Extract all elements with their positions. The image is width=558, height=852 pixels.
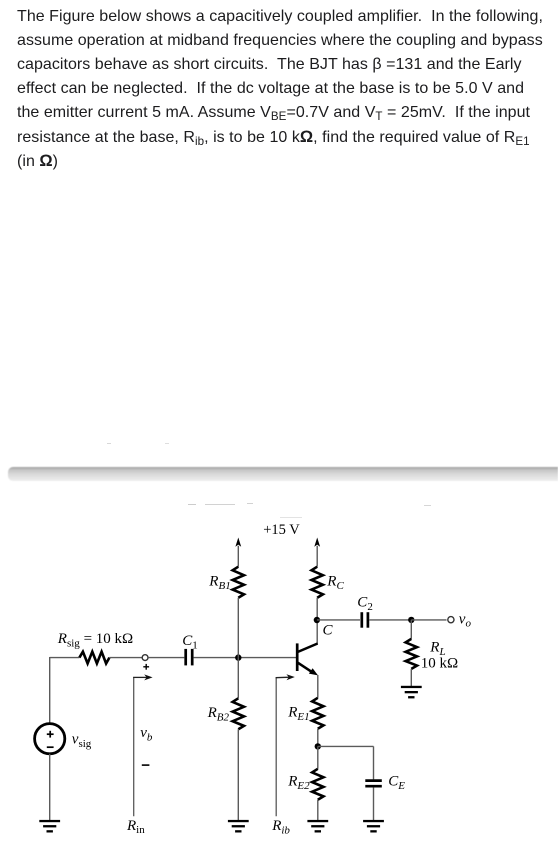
resistor RE1 — [312, 698, 323, 729]
svg-text:Rin: Rin — [126, 818, 145, 836]
svg-text:vsig: vsig — [72, 731, 92, 749]
+15V supply arrow right — [314, 538, 320, 547]
faint scan artifacts — [107, 443, 111, 444]
resistor Rsig — [79, 652, 109, 664]
svg-text:C: C — [323, 623, 334, 639]
ground under RL — [401, 686, 422, 688]
wire Rsig to input node — [109, 657, 142, 659]
resistor RB1 — [233, 567, 244, 598]
wire C1 to base node — [194, 657, 239, 659]
resistor RE2 — [312, 769, 323, 800]
svg-text:RB1: RB1 — [208, 573, 230, 591]
node B junction dot — [235, 654, 241, 660]
wire collector node to C2 — [317, 619, 360, 621]
svg-text:RE1: RE1 — [287, 705, 309, 723]
transistor Q1 collector stroke — [298, 644, 318, 653]
wire CE to ground — [373, 787, 375, 820]
transistor Q1 base bar — [296, 643, 299, 671]
measurement arrow vb / Rin — [133, 677, 135, 816]
resistor RB2 — [233, 698, 244, 729]
svg-text:vo: vo — [459, 611, 472, 629]
wire vsig to ground — [49, 754, 51, 820]
svg-text:CE: CE — [388, 773, 405, 791]
resistor RL — [406, 639, 417, 669]
wire emitter down to RE1 — [317, 675, 319, 698]
svg-text:C1: C1 — [182, 633, 198, 651]
label minus of vb — [142, 764, 150, 766]
wire supply to RB1 — [237, 546, 239, 567]
wire base node to RB2 — [237, 658, 239, 699]
capacitor C1 — [184, 649, 187, 666]
label plus at input node — [143, 666, 149, 668]
svg-text:RB2: RB2 — [207, 705, 230, 723]
node output junction dot — [408, 617, 414, 623]
wire output node to vo terminal — [411, 619, 446, 621]
node E1 junction dot — [315, 743, 321, 749]
svg-text:RC: RC — [326, 573, 344, 591]
wire RL to ground — [410, 669, 412, 686]
measurement arrow Rib — [275, 678, 277, 816]
wire C2 to output node — [369, 619, 411, 621]
wire CE branch down to capacitor — [373, 746, 375, 779]
ground under RB2 — [228, 820, 249, 822]
wire supply to RC — [316, 546, 318, 567]
wire RE1 to emitter node — [317, 729, 319, 747]
wire RB1 to base node — [237, 598, 239, 658]
ground under RE2 — [307, 820, 328, 822]
node C collector dot — [314, 617, 320, 623]
wire node to RE2 — [317, 746, 319, 768]
+15V supply arrow left — [235, 538, 241, 547]
svg-text:10 kΩ: 10 kΩ — [421, 655, 458, 671]
wire RE2 to ground — [317, 800, 319, 820]
capacitor C2 — [360, 612, 363, 628]
svg-text:+15 V: +15 V — [263, 522, 300, 538]
ground under CE — [363, 820, 384, 822]
capacitor CE — [365, 779, 382, 782]
source vsig — [35, 724, 65, 754]
node input open circle — [142, 655, 148, 661]
svg-text:C2: C2 — [357, 595, 373, 613]
wire base horizontal left segment — [50, 657, 80, 659]
wire collector node down to transistor — [316, 620, 318, 644]
terminal vo open circle — [448, 617, 454, 623]
wire emitter node to CE branch — [318, 745, 374, 747]
svg-text:Rsig = 10 kΩ: Rsig = 10 kΩ — [57, 631, 133, 649]
ground under vsig — [39, 820, 60, 822]
svg-text:RE2: RE2 — [287, 774, 310, 792]
wire RC to collector node — [316, 598, 318, 620]
svg-text:vb: vb — [140, 725, 153, 743]
wire RB2 to ground — [237, 729, 239, 820]
wire input node to C1 — [148, 657, 184, 659]
separator bar — [8, 467, 558, 482]
resistor RC — [312, 567, 323, 598]
svg-text:Rib: Rib — [271, 818, 290, 836]
wire output node to RL — [410, 620, 412, 639]
wire vsig branch vertical top — [49, 657, 51, 724]
wire base node to transistor base — [238, 657, 296, 659]
transistor Q1 emitter arrowhead — [309, 668, 318, 675]
transistor Q1 emitter stroke — [298, 663, 312, 673]
